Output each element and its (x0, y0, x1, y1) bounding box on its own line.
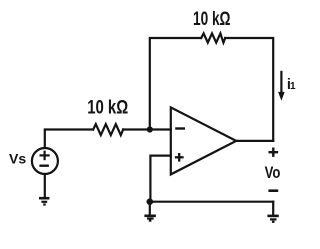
ground G3 below output minus terminal (267, 216, 278, 222)
minus sign output terminal (268, 189, 278, 192)
wire: op-amp output to right vertical (236, 140, 273, 142)
wire: feedback left vertical and top left segment (150, 38, 201, 130)
svg-text:Vo: Vo (265, 164, 281, 182)
ground G2 below node B (144, 216, 156, 221)
wire: Vs top to input resistor (45, 130, 93, 148)
svg-text:10 kΩ: 10 kΩ (87, 97, 128, 118)
node B: ground bus junction dot (147, 198, 154, 205)
wire: Vs bottom to ground (44, 174, 46, 197)
wire: ground stub under node B (149, 202, 151, 215)
node A: inverting input junction dot (147, 126, 153, 132)
svg-text:10 kΩ: 10 kΩ (193, 9, 231, 30)
wire: non-inverting input stub and vertical down to ground bus (150, 156, 170, 202)
minus sign inside Vs source (39, 164, 49, 166)
resistor R2 10k feedback zigzag (201, 33, 225, 42)
resistor R1 10k input zigzag (93, 124, 123, 135)
current arrow i1 (278, 71, 285, 101)
svg-text:1: 1 (290, 81, 296, 92)
wire: bottom ground bus (150, 201, 273, 203)
wire: resistor R1 to op-amp inverting input (123, 128, 171, 130)
svg-text:Vs: Vs (9, 151, 26, 167)
plus sign at op-amp non-inverting input (175, 153, 184, 162)
plus sign inside Vs source (40, 151, 50, 161)
op-amp U1 triangle (171, 107, 236, 174)
wire: output lower vertical to ground (272, 202, 274, 215)
voltage source Vs circle (32, 148, 58, 174)
minus sign at op-amp inverting input (175, 127, 185, 129)
plus sign output terminal (269, 148, 279, 157)
ground G1 below Vs (39, 198, 49, 204)
wire: feedback top right segment and right vertical down to output (225, 38, 273, 141)
